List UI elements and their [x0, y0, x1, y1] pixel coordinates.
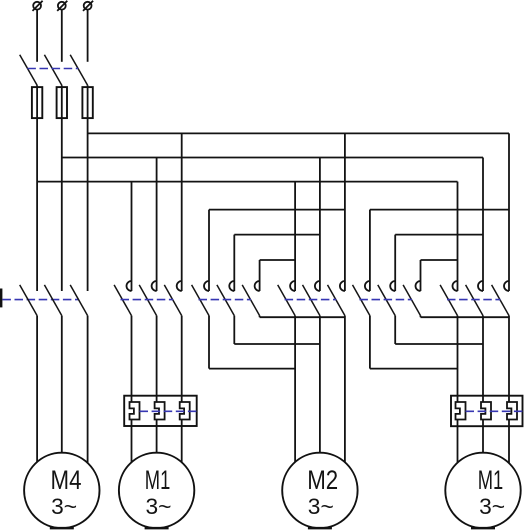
F4 trip link [466, 410, 523, 412]
K2 mechanical link [121, 299, 174, 301]
wire busbar L3 to K6 pole 3 [508, 133, 510, 291]
svg-text:3~: 3~ [51, 494, 77, 519]
wire L3 to switch [87, 10, 89, 62]
riser K5 pole 2 [394, 235, 396, 291]
wire K3 pole 2 down [233, 316, 235, 344]
cross wire K3 pole3 - K4 pole1 [260, 259, 296, 261]
svg-text:M1: M1 [478, 465, 504, 495]
motor M1 [445, 453, 520, 528]
contactor K4 pole 3 blade [328, 285, 345, 316]
contactor K5 pole 3 contact [416, 281, 421, 291]
busbar L1 (bottom) [37, 181, 457, 183]
contactor K6 pole 2 contact [478, 281, 483, 291]
wire K5 pole 3 down [420, 316, 422, 318]
contactor K5 pole 3 blade [403, 285, 420, 316]
riser K3 pole 3 [259, 260, 261, 291]
contactor K4 pole 2 contact [315, 281, 320, 291]
overload relay F4 box [451, 396, 523, 427]
wire overload F2 to motor M1 [156, 420, 158, 453]
contactor K3 pole 1 blade [192, 285, 209, 316]
svg-text:M1: M1 [145, 465, 171, 495]
wire busbar L2 to K2 pole 2 [156, 158, 158, 292]
wire K3 pole 3 down [259, 316, 261, 318]
overload F4 heater 3 [507, 402, 517, 420]
main switch Q0 pole 2 blade [44, 55, 61, 86]
wire K6 pole 2 to overload F4 [482, 316, 484, 402]
wire K5 pole 1 down [369, 316, 371, 369]
wire overload F4 to motor M1 [508, 420, 510, 463]
wire K4 pole 2 to motor M2 [319, 316, 321, 453]
join K3 pole 3 - K4 pole 3 [260, 316, 345, 318]
K4 mechanical link [285, 299, 337, 301]
wire K2 pole 1 to overload F2 [131, 316, 133, 402]
join K5 pole 3 - K6 pole 3 [421, 316, 510, 318]
contactor K6 pole 2 blade [466, 285, 483, 316]
wire K5 pole 2 down [394, 316, 396, 344]
wire fuse F1 through to contactor K1 pole 1 [36, 85, 38, 291]
switch Q1 pole 2 blade [44, 285, 61, 316]
terminal L1 [33, 2, 41, 10]
contactor K5 pole 1 blade [353, 285, 370, 316]
contactor K6 pole 3 blade [492, 285, 509, 316]
cross wire K5 pole2 - K6 pole2 [395, 234, 483, 236]
contactor K2 pole 2 contact [152, 281, 157, 291]
contactor K5 pole 1 contact [365, 281, 370, 291]
main switch Q0 pole 1 blade [20, 55, 37, 86]
contactor K2 pole 2 blade [139, 285, 156, 316]
wire Q1 pole 1 to motor M4 [36, 316, 38, 463]
contactor K4 pole 1 blade [278, 285, 295, 316]
contactor K4 pole 2 blade [303, 285, 320, 316]
contactor K3 pole 1 contact [204, 281, 209, 291]
riser K3 pole 2 [233, 235, 235, 291]
busbar L2 (middle) [62, 157, 483, 159]
terminal L3 [84, 2, 92, 10]
contactor K6 pole 1 contact [453, 281, 458, 291]
F2 trip link [140, 410, 197, 412]
wire K6 pole 3 to overload F4 [508, 316, 510, 402]
motor M2 [282, 453, 357, 528]
contactor K6 pole 1 blade [440, 285, 457, 316]
overload F2 heater 1 [130, 402, 140, 420]
riser K5 pole 3 [420, 260, 422, 291]
fuse F3 [82, 87, 92, 118]
contactor K6 pole 3 contact [504, 281, 509, 291]
overload F2 heater 2 [155, 402, 165, 420]
Q1 mechanical link [2, 299, 79, 301]
contactor K3 pole 2 blade [217, 285, 234, 316]
motor M4 [24, 453, 99, 528]
wire K2 pole 3 to overload F2 [181, 316, 183, 402]
wire overload F4 to motor M1 [482, 420, 484, 453]
wire L2 to switch [61, 10, 63, 62]
K3 mechanical link [199, 299, 252, 301]
switch Q1 actuator bar [0, 289, 2, 308]
svg-text:M4: M4 [51, 465, 82, 495]
wire busbar L3 to K2 pole 3 [181, 133, 183, 291]
wire busbar L3 to K4 pole 3 [344, 133, 346, 291]
wire Q1 pole 2 to motor M4 [61, 316, 63, 453]
contactor K2 pole 3 contact [177, 281, 182, 291]
wire K6 pole 1 to overload F4 [457, 316, 459, 402]
contactor K2 pole 1 contact [127, 281, 132, 291]
contactor K4 pole 3 contact [340, 281, 345, 291]
overload relay F2 box [124, 396, 197, 426]
contactor K4 pole 1 contact [290, 281, 295, 291]
switch Q1 pole 3 blade [70, 285, 87, 316]
Q0 mechanical link [27, 68, 78, 70]
switch Q1 pole 1 blade [20, 285, 37, 316]
contactor K2 pole 1 blade [114, 285, 131, 316]
wire K3 pole 1 down [208, 316, 210, 369]
svg-text:3~: 3~ [146, 494, 172, 519]
wire L1 to switch [36, 10, 38, 62]
wire Q1 pole 3 to motor M4 [87, 316, 89, 463]
svg-text:M2: M2 [307, 465, 338, 495]
contactor K2 pole 3 blade [164, 285, 181, 316]
join K5 pole 1 - K6 pole 1 [370, 368, 458, 370]
busbar L3 (top) [88, 132, 509, 134]
svg-text:3~: 3~ [479, 494, 505, 519]
cross wire K3 pole1 - K4 pole3 [209, 209, 345, 211]
cross wire K5 pole1 - K6 pole3 [370, 209, 509, 211]
fuse F2 [57, 87, 67, 118]
contactor K5 pole 2 contact [390, 281, 395, 291]
join K5 pole 2 - K6 pole 2 [395, 343, 483, 345]
main switch Q0 pole 3 blade [70, 55, 87, 86]
riser K3 pole 1 [208, 210, 210, 291]
K6 mechanical link [447, 299, 500, 301]
riser K5 pole 1 [369, 210, 371, 291]
wire busbar L1 to K4 pole 1 [294, 182, 296, 291]
overload F4 heater 2 [481, 402, 491, 420]
cross wire K5 pole3 - K6 pole1 [421, 259, 458, 261]
cross wire K3 pole2 - K4 pole2 [234, 234, 320, 236]
motor M1 [119, 453, 194, 528]
overload F4 heater 1 [456, 402, 466, 420]
wire busbar L1 to K6 pole 1 [457, 182, 459, 291]
K5 mechanical link [359, 299, 412, 301]
join K3 pole 2 - K4 pole 2 [234, 343, 320, 345]
wire fuse F3 through to contactor K1 pole 3 [87, 85, 89, 291]
svg-text:3~: 3~ [308, 494, 334, 519]
contactor K3 pole 3 blade [242, 285, 259, 316]
contactor K3 pole 2 contact [229, 281, 234, 291]
contactor K5 pole 2 blade [378, 285, 395, 316]
terminal L2 [58, 2, 66, 10]
overload F2 heater 3 [180, 402, 190, 420]
wire K2 pole 2 to overload F2 [156, 316, 158, 402]
contactor K3 pole 3 contact [255, 281, 260, 291]
wire overload F2 to motor M1 [131, 420, 133, 463]
wire K4 pole 1 to motor M2 [294, 316, 296, 463]
wire busbar L2 to K4 pole 2 [319, 158, 321, 292]
wire overload F2 to motor M1 [181, 420, 183, 463]
wire overload F4 to motor M1 [457, 420, 459, 463]
join K3 pole 1 - K4 pole 1 [209, 368, 295, 370]
wire K4 pole 3 to motor M2 [344, 316, 346, 463]
fuse F1 [32, 87, 42, 118]
wire fuse F2 through to contactor K1 pole 2 [61, 85, 63, 291]
wire busbar L1 to K2 pole 1 [131, 182, 133, 291]
wire busbar L2 to K6 pole 2 [482, 158, 484, 292]
